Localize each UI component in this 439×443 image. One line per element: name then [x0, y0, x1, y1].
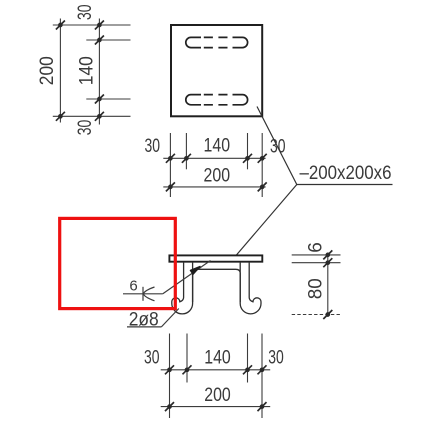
svg-text:6: 6: [305, 242, 326, 253]
right leg outer line: [249, 262, 253, 301]
inner contour of staple (under plate run): [193, 269, 241, 302]
tick: [243, 365, 252, 374]
dimension line 30/140/30 (vertical): [98, 19, 100, 125]
right dimension group (6 / 80): [292, 253, 341, 317]
tick: [165, 365, 174, 374]
extension line: [261, 133, 263, 197]
svg-text:30: 30: [145, 136, 161, 157]
side view plate (200x6 section): [169, 255, 262, 261]
slot hole S1 (dashed, upper): [186, 37, 248, 47]
extension line at plate bottom: [53, 115, 131, 117]
tick: [258, 182, 267, 191]
weld leader arrowhead: [190, 267, 200, 275]
extension line at plate top: [53, 24, 131, 26]
extension line: [186, 334, 188, 383]
tick: [166, 154, 175, 163]
red highlight rectangle: [60, 218, 176, 308]
extension line plate bottom: [292, 262, 341, 264]
tick: [243, 154, 252, 163]
extension line hooks bottom (dashed): [292, 314, 341, 316]
dimension line 200 (vertical): [59, 19, 61, 123]
dimension line 200: [163, 186, 265, 188]
svg-text:140: 140: [77, 56, 98, 85]
svg-text:200: 200: [204, 385, 231, 406]
extension line: [247, 133, 249, 169]
tick: [56, 112, 65, 121]
extension line: [169, 334, 171, 419]
tick: [56, 21, 65, 30]
leader diagonal from plate corner: [257, 107, 393, 185]
svg-text:30: 30: [144, 347, 160, 368]
dimension line 30/140/30: [163, 157, 265, 159]
plate P1 top view (200x200 square): [171, 25, 262, 116]
weld leader diagonal: [163, 261, 211, 294]
slot hole S2 (dashed, lower): [186, 95, 248, 105]
weld symbol K arms: [143, 287, 154, 301]
weld symbol K vertical bar: [142, 287, 144, 301]
tick: [323, 310, 332, 319]
dimension line 200: [161, 406, 271, 408]
top-middle dimension group (below square plate): [163, 133, 265, 197]
svg-text:200: 200: [204, 166, 231, 187]
weld reference line: [123, 293, 163, 295]
tick: [95, 112, 104, 121]
right hook outer sweep and tip cap: [240, 262, 261, 314]
extension line at slot1: [86, 39, 130, 41]
svg-text:6: 6: [129, 278, 137, 295]
extension line at slot2: [86, 98, 130, 100]
svg-text:30: 30: [75, 120, 96, 136]
tick: [258, 365, 267, 374]
tick: [95, 21, 104, 30]
svg-text:–200x200x6: –200x200x6: [300, 163, 392, 184]
rebar leader diagonal: [161, 309, 178, 327]
extension line plate top: [292, 254, 341, 256]
svg-text:30: 30: [75, 4, 96, 20]
tick: [258, 154, 267, 163]
svg-text:80: 80: [306, 278, 327, 299]
tick: [95, 36, 104, 45]
bottom dimension group: [161, 334, 271, 419]
tick: [165, 402, 174, 411]
tick: [182, 154, 191, 163]
tick: [95, 95, 104, 104]
svg-text:140: 140: [204, 347, 231, 368]
left hook outer sweep and tip cap: [172, 262, 193, 314]
tick: [323, 250, 332, 259]
tick: [166, 182, 175, 191]
svg-text:30: 30: [268, 347, 284, 368]
extension line: [185, 133, 187, 169]
svg-text:140: 140: [204, 135, 231, 156]
leader diagonal to side view: [234, 185, 297, 259]
extension line: [169, 133, 171, 197]
dimension line vertical: [327, 253, 329, 317]
extension line: [247, 334, 249, 383]
anchor bar staple: outer contour left leg + left hook: [180, 262, 184, 301]
tick: [258, 402, 267, 411]
left dimension group: [53, 19, 131, 125]
tick: [183, 365, 192, 374]
rebar callout underline: [127, 326, 161, 328]
leader to plate label: [234, 107, 393, 259]
extension line: [261, 334, 263, 419]
dimension line 30/140/30: [161, 369, 271, 371]
tick: [323, 258, 332, 267]
svg-text:200: 200: [37, 56, 58, 85]
